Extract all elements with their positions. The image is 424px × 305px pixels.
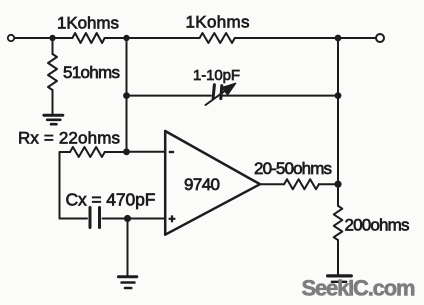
node dot A [49,35,55,41]
variable capacitor C1 arrow shaft [206,87,231,105]
ground G1 bars under 51ohms [44,114,63,117]
terminal left [8,35,14,41]
svg-text:1Kohms: 1Kohms [57,14,119,33]
node dot feedback right [335,92,342,99]
wire R2 to right terminal [235,37,377,39]
wire 51ohms top lead [52,38,54,54]
wire Rx to node [105,151,127,153]
op-amp plus sign [169,215,176,222]
resistor R1 1Kohms [72,33,104,43]
svg-text:200ohms: 200ohms [345,216,410,235]
wire node B down to feedback and minus input [126,38,128,152]
node dot C [335,35,342,42]
resistor R2 1Kohms [200,33,235,43]
wire feedback left segment [127,95,211,97]
variable capacitor C1 plates [213,85,214,98]
svg-text:20-50ohms: 20-50ohms [254,159,332,178]
wire between R1 and R2 [105,37,200,39]
capacitor Cx plates [89,208,92,228]
wire ground stem from Cx node [127,219,129,277]
node dot B [123,35,129,41]
wire Rx left leg vertical [60,152,71,219]
wire 51ohms bottom lead [52,90,54,114]
node dot minus input [123,148,130,155]
resistor R5 200ohms [334,206,343,240]
resistor Rx 22ohms [70,147,105,157]
svg-text:1-10pF: 1-10pF [193,67,240,84]
wire top rail left segment [15,37,73,39]
variable capacitor C1 arrowhead [222,83,236,95]
wire right vertical from node C to output node [337,38,339,184]
wire output resistor to node [319,183,338,185]
wire 200ohms top lead [337,184,339,206]
resistor R3 51ohms [48,54,57,90]
wire feedback right segment [223,95,338,97]
wire output lead [260,183,284,185]
op-amp U1 triangle [165,131,260,235]
svg-text:1Kohms: 1Kohms [186,13,250,32]
svg-text:9740: 9740 [184,175,220,194]
node dot Cx junction [124,215,131,222]
svg-text:Cx = 470pF: Cx = 470pF [66,190,156,210]
svg-text:SeekIC.com: SeekIC.com [302,276,416,301]
node dot output [334,181,341,188]
resistor R4 20-50ohms [284,179,319,189]
ground G2 bars [118,275,136,278]
node dot feedback left [123,92,130,99]
wire 200ohms bottom lead [337,240,339,275]
svg-text:Rx = 22ohms: Rx = 22ohms [18,129,120,148]
svg-text:51ohms: 51ohms [63,63,120,82]
wire Cx left lead [60,218,88,220]
terminal right [376,34,384,42]
wire minus input [127,151,165,153]
ground G3 bars [328,274,352,277]
op-amp minus sign [169,151,174,153]
wire Cx to plus input [103,218,165,220]
